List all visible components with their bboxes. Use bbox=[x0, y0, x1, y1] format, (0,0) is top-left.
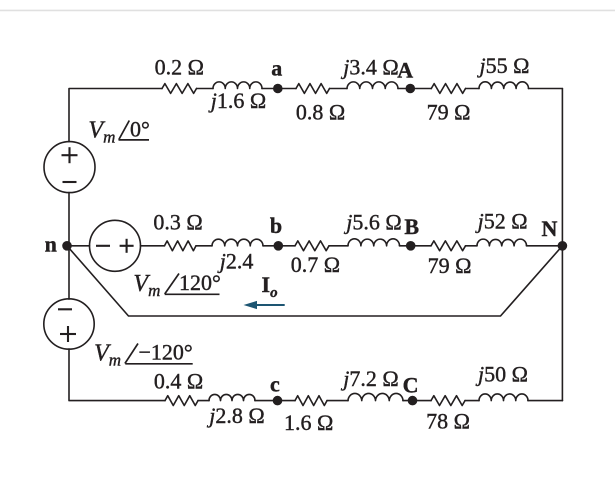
svg-text:j52 Ω: j52 Ω bbox=[475, 209, 528, 234]
wire bbox=[466, 245, 478, 247]
wire bbox=[197, 88, 214, 90]
Vs3 minus sign bbox=[58, 308, 72, 310]
wire: node n to source Vs2 bbox=[67, 245, 90, 247]
svg-text:C: C bbox=[403, 373, 419, 398]
node N dot bbox=[558, 241, 568, 251]
Vs2 plus sign bbox=[120, 245, 134, 247]
wire bbox=[466, 88, 480, 90]
svg-text:B: B bbox=[404, 214, 419, 239]
Vs2 minus sign bbox=[96, 245, 110, 247]
node a dot bbox=[273, 84, 283, 94]
wire: to top-right corner bbox=[529, 88, 563, 90]
wire bbox=[330, 88, 348, 90]
inductor j1.6 ohm bbox=[213, 82, 262, 89]
node B dot bbox=[406, 241, 416, 251]
wire: left vertical between Vs1 and Vs3 through node n bbox=[68, 193, 70, 300]
svg-text:1.6 Ω: 1.6 Ω bbox=[284, 410, 333, 435]
wire bbox=[327, 400, 348, 402]
wire bbox=[329, 245, 348, 247]
svg-text:j3.4 Ω: j3.4 Ω bbox=[340, 55, 398, 80]
resistor 79 ohm (line b) bbox=[431, 241, 466, 251]
svg-text:j50 Ω: j50 Ω bbox=[475, 362, 528, 387]
resistor 0.3 ohm bbox=[165, 241, 197, 251]
wire: through node C bbox=[403, 400, 431, 402]
current Io arrow (pointing left) bbox=[244, 301, 285, 309]
resistor 78 ohm bbox=[431, 396, 465, 406]
Vs1 plus sign bbox=[62, 154, 78, 156]
svg-text:N: N bbox=[542, 216, 558, 241]
Vs3 plus sign bbox=[60, 333, 76, 335]
svg-text:j7.2 Ω: j7.2 Ω bbox=[340, 366, 398, 391]
wire bbox=[198, 400, 209, 402]
wire: Vs2 right lead bbox=[141, 245, 165, 247]
svg-text:c: c bbox=[270, 372, 280, 397]
source Vs3 value label Vm angle -120 bbox=[94, 340, 193, 370]
inductor j55 ohm bbox=[479, 82, 529, 89]
wire: through node b bbox=[263, 245, 295, 247]
Vs1 minus sign bbox=[63, 181, 77, 183]
inductor j50 ohm bbox=[479, 394, 528, 401]
resistor 0.2 ohm bbox=[162, 84, 197, 94]
svg-text:0°: 0° bbox=[130, 117, 150, 142]
wire: Vs3 bottom lead to bottom-left corner bbox=[69, 349, 165, 401]
inductor j2.4 ohm bbox=[212, 239, 263, 246]
svg-text:78 Ω: 78 Ω bbox=[426, 409, 470, 434]
inductor j3.4 ohm bbox=[347, 82, 398, 89]
resistor 0.8 ohm bbox=[296, 84, 330, 94]
svg-text:79 Ω: 79 Ω bbox=[428, 253, 472, 278]
inductor j5.6 ohm bbox=[348, 239, 400, 246]
svg-text:0.7 Ω: 0.7 Ω bbox=[291, 252, 340, 277]
svg-text:b: b bbox=[270, 213, 282, 238]
inductor j2.8 ohm bbox=[209, 394, 255, 400]
wire: to bottom-right corner bbox=[528, 400, 562, 402]
node c dot bbox=[273, 396, 283, 406]
resistor 79 ohm (line a) bbox=[431, 84, 465, 94]
svg-text:A: A bbox=[397, 58, 413, 83]
svg-text:j2.8 Ω: j2.8 Ω bbox=[206, 403, 264, 428]
svg-text:0.4 Ω: 0.4 Ω bbox=[154, 369, 203, 394]
resistor 1.6 ohm bbox=[295, 396, 327, 406]
wire: through node c bbox=[255, 400, 295, 402]
wire: left vertical, source Vs1 top lead bbox=[69, 89, 162, 142]
svg-text:0.8 Ω: 0.8 Ω bbox=[296, 100, 345, 125]
wire: through node a bbox=[262, 88, 296, 90]
node b dot bbox=[274, 241, 284, 251]
page top rule bbox=[0, 9, 615, 11]
inductor j7.2 ohm bbox=[348, 393, 403, 400]
wire bbox=[196, 245, 212, 247]
svg-text:−120°: −120° bbox=[139, 340, 193, 365]
source Vs1 value label Vm angle 0 bbox=[88, 117, 149, 147]
svg-text:120°: 120° bbox=[179, 270, 221, 295]
wire: to node N bbox=[527, 245, 563, 247]
wire bbox=[465, 400, 479, 402]
voltage source Vs1 (Vm/0) circle bbox=[44, 142, 95, 193]
svg-text:n: n bbox=[45, 232, 57, 257]
svg-text:a: a bbox=[271, 56, 282, 81]
wire: through node A bbox=[398, 88, 431, 90]
svg-text:j2.4: j2.4 bbox=[217, 249, 254, 274]
node n dot bbox=[62, 241, 72, 251]
inductor j52 ohm bbox=[477, 239, 527, 246]
voltage source Vs3 (Vm/-120) circle bbox=[44, 299, 94, 349]
svg-text:j5.6 Ω: j5.6 Ω bbox=[343, 210, 401, 235]
wire: neutral return n to N bbox=[67, 246, 562, 316]
node A dot bbox=[406, 84, 416, 94]
svg-text:0.3 Ω: 0.3 Ω bbox=[153, 210, 202, 235]
wire: right vertical bus bbox=[561, 89, 563, 401]
svg-text:j1.6 Ω: j1.6 Ω bbox=[208, 88, 266, 113]
voltage source Vs2 (Vm/120) circle bbox=[90, 220, 141, 271]
resistor 0.4 ohm bbox=[165, 396, 198, 406]
resistor 0.7 ohm bbox=[295, 241, 329, 251]
node C dot bbox=[408, 396, 418, 406]
svg-text:79 Ω: 79 Ω bbox=[427, 100, 471, 125]
svg-text:j55 Ω: j55 Ω bbox=[477, 53, 530, 78]
source Vs2 value label Vm angle 120 bbox=[133, 270, 220, 300]
svg-text:0.2 Ω: 0.2 Ω bbox=[155, 55, 204, 80]
wire: through node B bbox=[400, 245, 432, 247]
